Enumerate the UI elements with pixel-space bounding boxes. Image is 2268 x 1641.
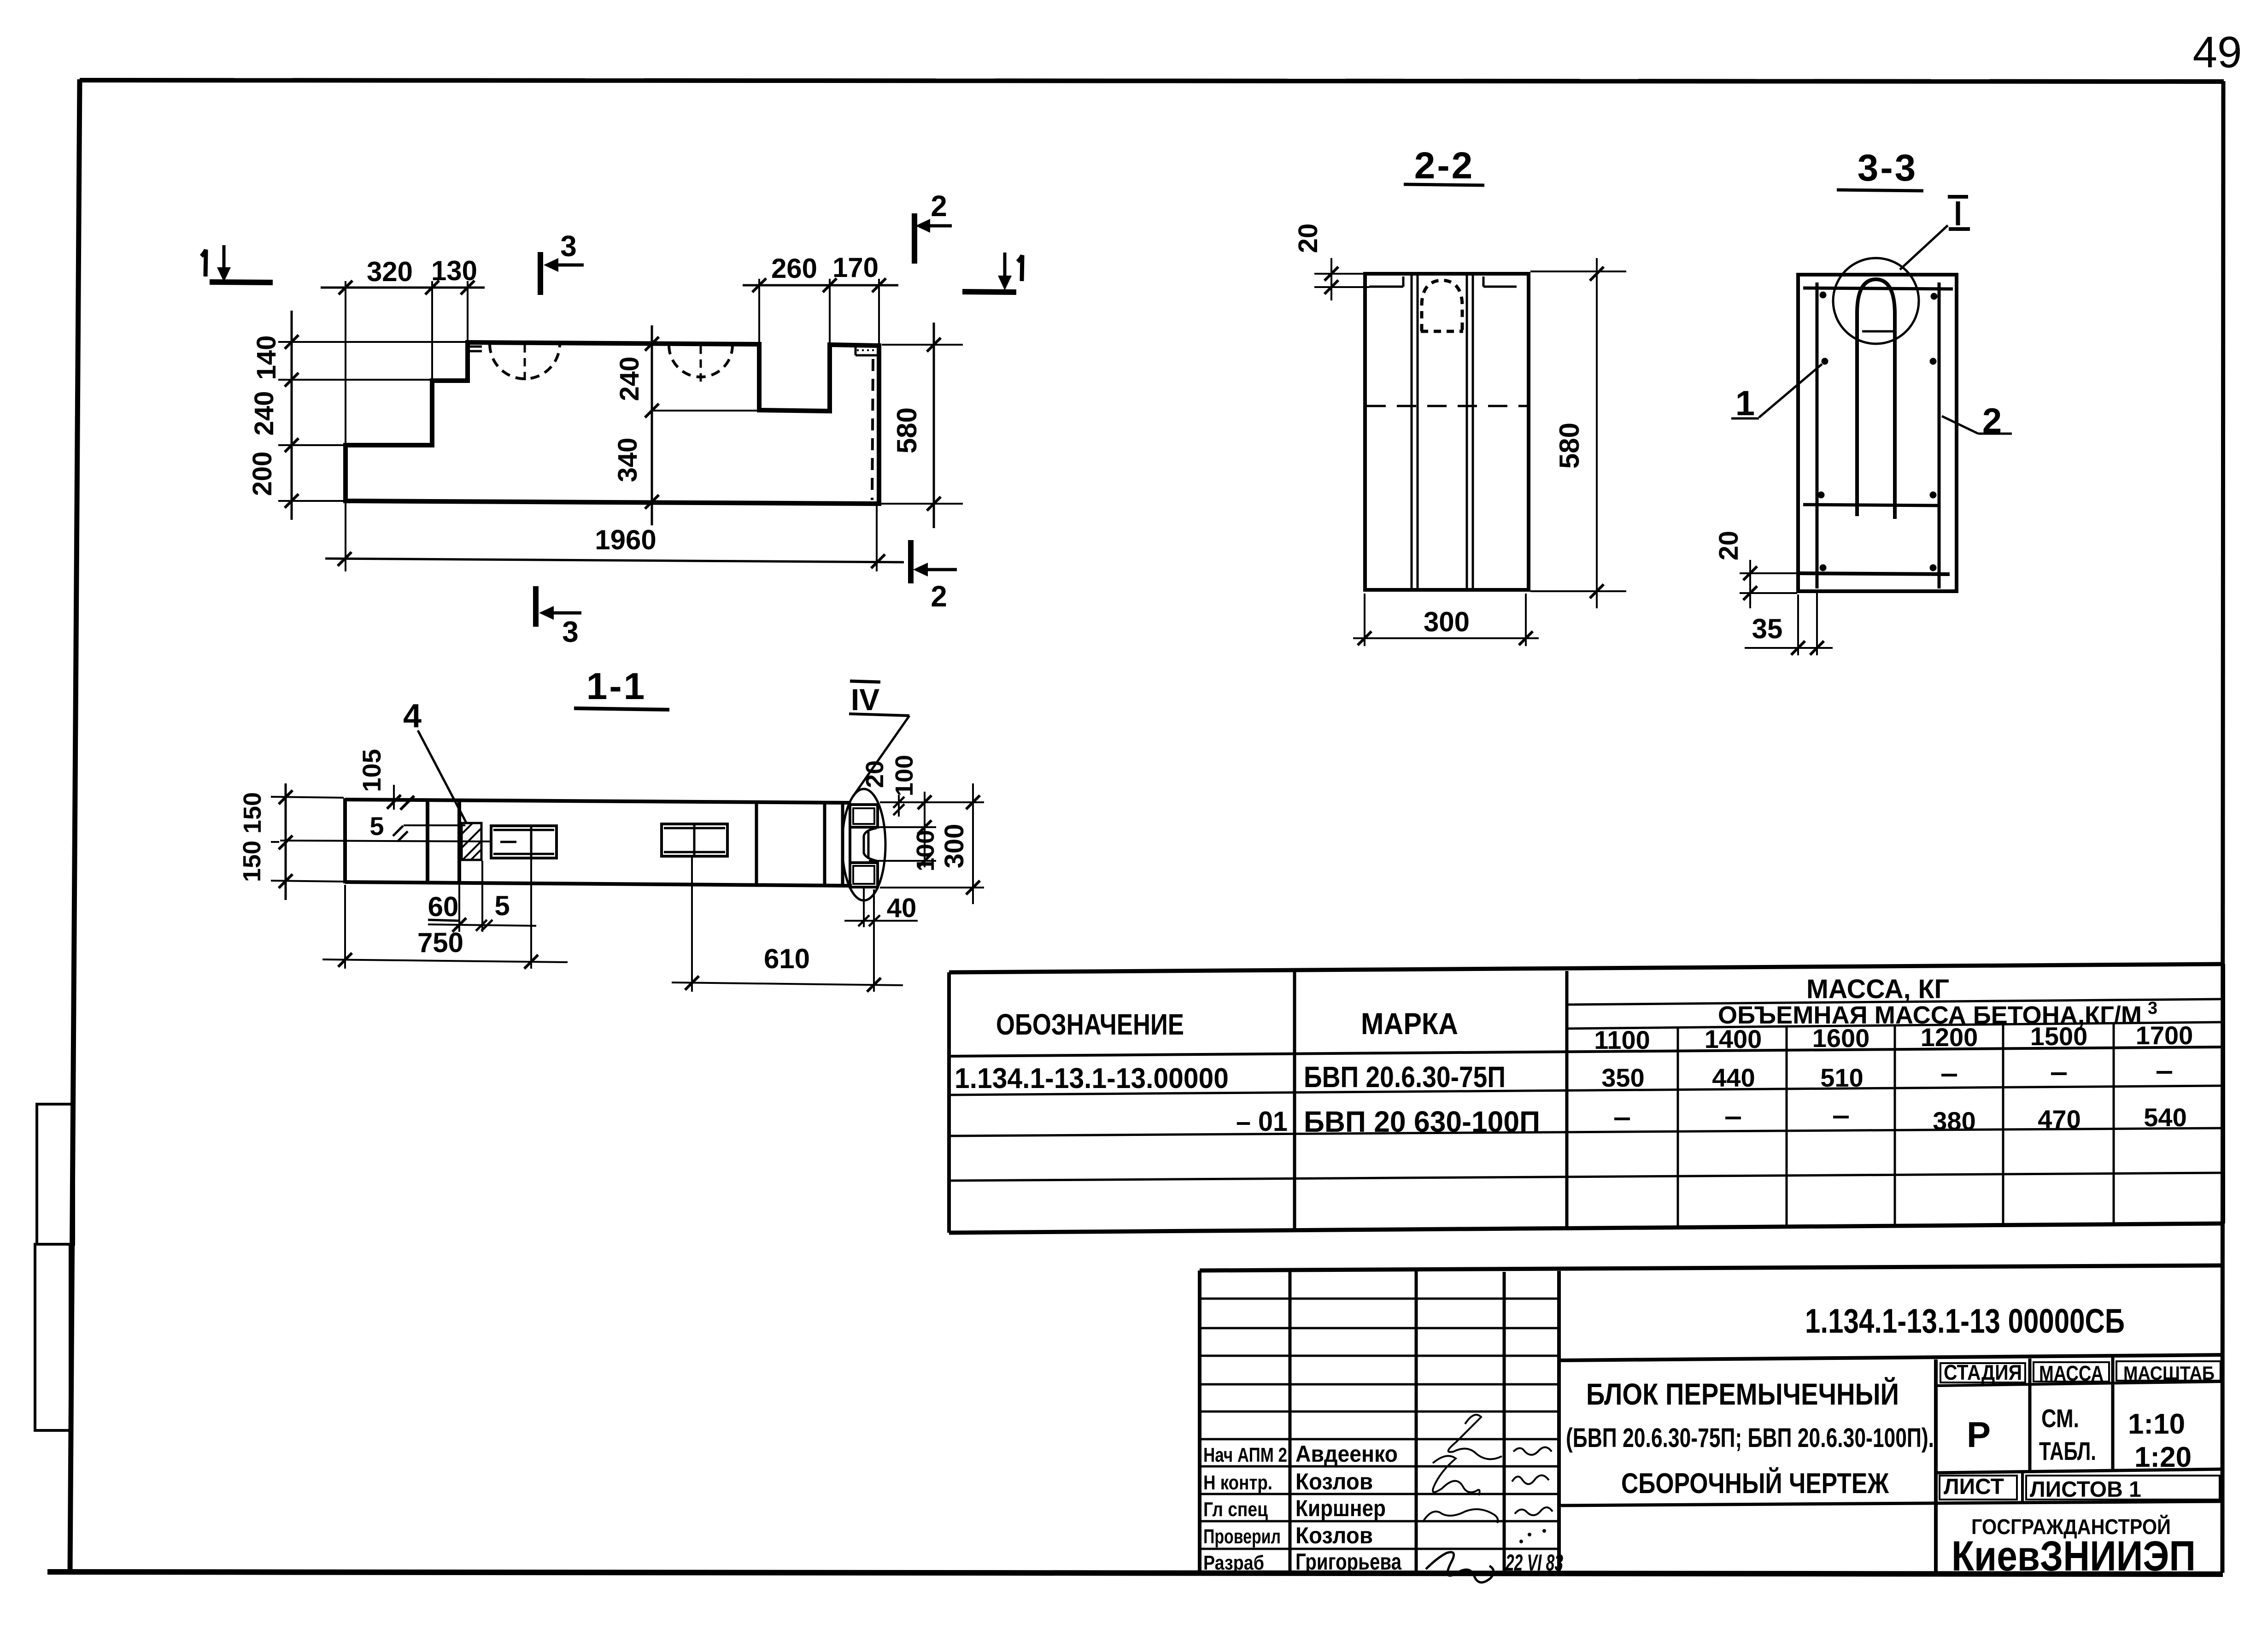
- svg-text:150: 150: [239, 792, 266, 834]
- svg-text:1:20: 1:20: [2134, 1441, 2192, 1473]
- svg-text:1.134.1-13.1-13 00000СБ: 1.134.1-13.1-13 00000СБ: [1805, 1302, 2125, 1340]
- svg-text:540: 540: [2144, 1103, 2186, 1132]
- svg-text:БВП 20.6.30-75П: БВП 20.6.30-75П: [1304, 1060, 1506, 1094]
- svg-text:20: 20: [1293, 224, 1323, 253]
- svg-text:350: 350: [1601, 1063, 1644, 1092]
- svg-text:3: 3: [562, 615, 579, 648]
- svg-text:Козлов: Козлов: [1295, 1469, 1373, 1494]
- svg-text:1200: 1200: [1921, 1023, 1978, 1052]
- svg-text:1700: 1700: [2136, 1021, 2193, 1050]
- svg-text:580: 580: [891, 407, 922, 453]
- svg-text:Козлов: Козлов: [1295, 1523, 1373, 1548]
- svg-text:49: 49: [2193, 28, 2242, 77]
- svg-text:1400: 1400: [1705, 1024, 1762, 1053]
- svg-text:750: 750: [417, 927, 463, 958]
- svg-text:580: 580: [1554, 423, 1585, 469]
- svg-text:2-2: 2-2: [1414, 145, 1475, 187]
- svg-text:Р: Р: [1967, 1414, 1991, 1455]
- svg-text:20: 20: [861, 760, 889, 788]
- svg-text:4: 4: [403, 698, 422, 735]
- svg-text:1-1: 1-1: [586, 665, 647, 707]
- svg-text:3: 3: [560, 229, 577, 263]
- svg-text:240: 240: [615, 357, 645, 401]
- svg-text:– 01: – 01: [1236, 1106, 1288, 1137]
- svg-text:1600: 1600: [1812, 1023, 1870, 1053]
- svg-text:(БВП 20.6.30-75П; БВП 20.6.30-: (БВП 20.6.30-75П; БВП 20.6.30-100П).: [1566, 1423, 1934, 1453]
- svg-text:1960: 1960: [595, 524, 656, 555]
- svg-text:2: 2: [931, 189, 947, 223]
- svg-text:130: 130: [431, 255, 477, 286]
- svg-text:100: 100: [891, 755, 918, 796]
- svg-text:Проверил: Проверил: [1203, 1525, 1281, 1548]
- svg-text:СТАДИЯ: СТАДИЯ: [1944, 1360, 2022, 1384]
- svg-text:МАСШТАБ: МАСШТАБ: [2123, 1362, 2215, 1384]
- svg-text:40: 40: [887, 893, 917, 923]
- svg-text:320: 320: [367, 256, 413, 287]
- svg-text:1.134.1-13.1-13.00000: 1.134.1-13.1-13.00000: [955, 1063, 1229, 1094]
- svg-text:1500: 1500: [2030, 1022, 2088, 1051]
- svg-text:Н контр.: Н контр.: [1203, 1471, 1272, 1494]
- svg-text:ОБОЗНАЧЕНИЕ: ОБОЗНАЧЕНИЕ: [996, 1008, 1184, 1041]
- svg-text:ТАБЛ.: ТАБЛ.: [2039, 1436, 2096, 1465]
- svg-text:5: 5: [494, 890, 510, 921]
- svg-text:240: 240: [249, 391, 279, 436]
- svg-text:Нач АПМ 2: Нач АПМ 2: [1203, 1444, 1287, 1466]
- svg-text:Разраб: Разраб: [1203, 1552, 1264, 1574]
- svg-text:Гл спец: Гл спец: [1203, 1498, 1268, 1521]
- svg-text:IV: IV: [851, 682, 879, 717]
- svg-text:КиевЗНИИЭП: КиевЗНИИЭП: [1952, 1533, 2196, 1580]
- svg-text:Григорьева: Григорьева: [1295, 1549, 1402, 1575]
- svg-text:300: 300: [1424, 606, 1470, 637]
- svg-text:470: 470: [2038, 1105, 2080, 1134]
- svg-text:СБОРОЧНЫЙ ЧЕРТЕЖ: СБОРОЧНЫЙ ЧЕРТЕЖ: [1621, 1467, 1889, 1500]
- svg-text:35: 35: [1752, 613, 1783, 644]
- svg-text:ЛИСТОВ 1: ЛИСТОВ 1: [2030, 1477, 2141, 1502]
- svg-text:510: 510: [1820, 1063, 1863, 1092]
- svg-text:ЛИСТ: ЛИСТ: [1944, 1475, 2004, 1499]
- svg-text:МАССА: МАССА: [2039, 1361, 2104, 1385]
- svg-text:Киршнер: Киршнер: [1295, 1495, 1386, 1521]
- svg-text:150: 150: [238, 841, 266, 882]
- svg-text:440: 440: [1712, 1063, 1755, 1092]
- svg-text:1: 1: [1735, 384, 1755, 423]
- svg-text:380: 380: [1933, 1106, 1975, 1135]
- svg-text:140: 140: [252, 335, 281, 380]
- svg-text:1100: 1100: [1594, 1025, 1650, 1054]
- svg-text:СМ.: СМ.: [2041, 1404, 2079, 1433]
- svg-text:БВП 20 630-100П: БВП 20 630-100П: [1304, 1105, 1540, 1138]
- svg-text:2: 2: [931, 580, 947, 613]
- svg-text:105: 105: [357, 749, 386, 792]
- svg-text:610: 610: [764, 943, 810, 974]
- svg-text:260: 260: [771, 253, 817, 284]
- svg-text:МАРКА: МАРКА: [1361, 1006, 1458, 1041]
- svg-text:5: 5: [369, 812, 384, 841]
- svg-text:1:10: 1:10: [2128, 1408, 2185, 1440]
- svg-text:60: 60: [428, 891, 459, 922]
- svg-text:340: 340: [613, 438, 643, 482]
- svg-text:22 VI 83: 22 VI 83: [1505, 1550, 1563, 1576]
- svg-text:Авдеенко: Авдеенко: [1295, 1441, 1398, 1467]
- svg-text:3-3: 3-3: [1858, 147, 1918, 189]
- svg-text:20: 20: [1714, 531, 1744, 561]
- svg-text:МАССА, КГ: МАССА, КГ: [1806, 974, 1949, 1004]
- svg-text:300: 300: [939, 824, 969, 869]
- svg-text:3: 3: [2148, 999, 2157, 1018]
- svg-text:200: 200: [247, 452, 277, 496]
- svg-text:170: 170: [832, 252, 879, 283]
- svg-text:БЛОК ПЕРЕМЫЧЕЧНЫЙ: БЛОК ПЕРЕМЫЧЕЧНЫЙ: [1586, 1376, 1899, 1411]
